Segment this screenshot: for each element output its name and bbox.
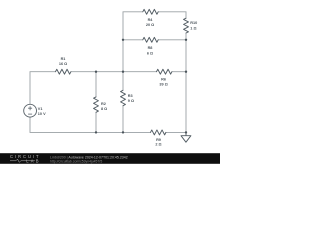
wire R9 to ground node [166,131,186,133]
wire second rail right [158,39,186,41]
resistor R8 [143,37,158,42]
resistor R1 [56,69,71,74]
wire main rail R2 node to R3 node [96,71,123,73]
svg-text:6 Ω: 6 Ω [147,52,153,56]
svg-text:R4: R4 [148,18,154,22]
svg-text:10 V: 10 V [38,112,46,116]
junction node I (ground) [185,131,187,133]
junction node H (R3 bottom) [122,131,124,133]
svg-text:R3: R3 [128,94,133,98]
wire main rail R1 to R2 node [71,71,96,73]
svg-text:2 Ω: 2 Ω [155,143,161,147]
svg-text:V1: V1 [38,107,43,111]
component strokes (dark) [24,9,191,142]
svg-text:R6: R6 [161,78,166,82]
wire right vertical lower [185,72,187,133]
svg-text:16 Ω: 16 Ω [59,62,67,66]
wires (light) [30,12,186,133]
V1 plus sign [28,106,32,110]
resistor R6 [157,69,172,74]
junction node F (right mid) [185,71,187,73]
svg-text:1 Ω: 1 Ω [190,26,196,30]
wire R2 branch top [95,72,97,97]
svg-text:http://circuitlab.com/c53yn4ju: http://circuitlab.com/c53yn4ju457r5 [50,160,102,164]
resistor R3 [121,90,126,105]
svg-text:R2: R2 [101,102,106,106]
resistor R10 [184,18,189,33]
svg-text:8 Ω: 8 Ω [101,107,107,111]
svg-text:20 Ω: 20 Ω [146,23,154,27]
wire bottom rail mid [96,131,151,133]
wire source bottom to bottom rail [30,117,96,132]
wire right vertical mid [185,40,187,72]
resistor R4 [143,9,158,14]
junction node C (R3 top) [122,71,124,73]
wire R2 branch bottom [95,112,97,132]
wire left box vertical and top rail left [123,12,143,72]
svg-text:R9: R9 [156,138,161,142]
wire top rail right and right vertical to R10 [158,12,186,19]
resistor R9 [151,130,166,135]
svg-text:R1: R1 [61,57,66,61]
wire left vertical top (source to main rail corner) [30,72,56,105]
wire R3 branch top [122,72,124,91]
wire R3 branch bottom [122,106,124,133]
voltage source V1 [24,104,37,117]
circuitlab logo [10,154,39,163]
resistor R2 [94,97,99,112]
wire R6 to right rail [172,71,186,73]
junction node B (R2 top) [95,71,97,73]
junction node G (R2 bottom) [95,131,97,133]
junction node D (second rail left) [122,39,124,41]
svg-text:9 Ω: 9 Ω [128,99,134,103]
wire second rail left [123,39,143,41]
svg-text:39 Ω: 39 Ω [159,83,167,87]
svg-text:R8: R8 [148,46,153,50]
junction node E (second rail right) [185,39,187,41]
wire main rail R3 node to R6 [123,71,157,73]
ground [181,132,191,142]
watermark banner [0,153,220,164]
svg-text:R10: R10 [190,21,197,25]
V1 minus sign [28,113,32,115]
wire R10 bottom to second rail node [185,33,187,40]
